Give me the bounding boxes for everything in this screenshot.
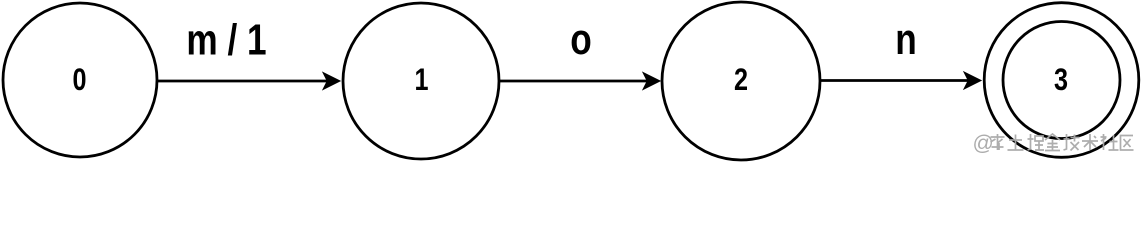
state circle 2	[662, 2, 820, 160]
svg-text:n: n	[895, 15, 917, 64]
svg-text:3: 3	[1054, 62, 1068, 97]
稀	[991, 134, 1005, 150]
区	[1121, 136, 1134, 151]
技	[1064, 134, 1080, 151]
掘	[1028, 134, 1045, 150]
state label 0	[72, 62, 86, 97]
state label 3	[1054, 62, 1068, 97]
wire arrow 1->2	[500, 73, 660, 90]
wire arrow 0->1	[158, 73, 340, 90]
state label 1	[414, 62, 428, 97]
state label 2	[734, 62, 748, 97]
术	[1082, 134, 1098, 150]
svg-text:o: o	[570, 15, 592, 64]
transition label m / 1	[186, 16, 266, 65]
svg-text:1: 1	[414, 62, 428, 97]
svg-text:0: 0	[72, 62, 86, 97]
transition label n	[895, 15, 917, 64]
社	[1101, 134, 1119, 150]
state circle 1	[343, 3, 499, 159]
transition label o	[570, 15, 592, 64]
svg-text:m / 1: m / 1	[186, 16, 266, 65]
svg-text:@: @	[973, 132, 994, 155]
土	[1008, 135, 1024, 151]
金	[1045, 134, 1060, 151]
wire arrow 2->3	[821, 72, 981, 89]
watermark @稀土掘金技术社区 (drawn)	[973, 132, 1134, 155]
@	[973, 132, 994, 155]
accepting state circle 3 outer ring	[984, 3, 1139, 158]
accepting state circle 3 inner ring	[1003, 22, 1120, 139]
state circle 0	[3, 3, 157, 157]
svg-text:2: 2	[734, 62, 748, 97]
